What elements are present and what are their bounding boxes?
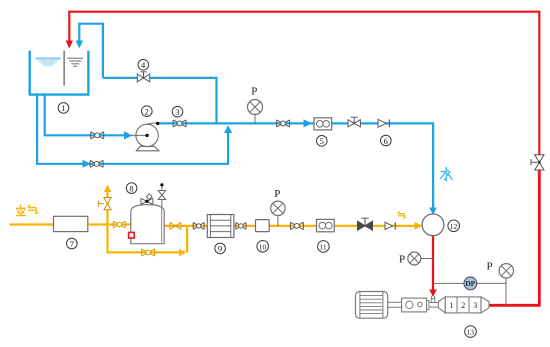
vessel TK8 (dome-top tank) — [131, 205, 164, 244]
label air (Chinese) at orange inlet — [16, 205, 38, 215]
wire blue bypass line through valve V4 — [103, 78, 217, 124]
pump P2 body — [136, 124, 158, 146]
regulator R10 — [256, 220, 270, 232]
blue arrow on suction line before pump — [124, 131, 133, 139]
orange arrow vent up — [104, 185, 111, 192]
pressure gauge P3 on mixer outlet — [399, 252, 433, 266]
wire red return line (right riser and top run back to tank) — [69, 12, 539, 170]
wire blue pump suction from tank bottom — [45, 95, 129, 136]
valve V-main on main line after gauge P1 — [277, 120, 290, 127]
label 6 (check valve) — [381, 135, 392, 146]
filter F7 — [54, 216, 88, 231]
wire red from static mixer down to separator inlet — [432, 236, 434, 292]
flowmeter FM5 — [314, 118, 332, 130]
blue arrow on main line before flowmeter 5 — [304, 119, 312, 127]
check valve CV6 — [378, 119, 389, 127]
svg-text:7: 7 — [70, 239, 74, 249]
svg-text:P: P — [399, 254, 405, 266]
wire orange from filter to vessel 8 — [88, 223, 131, 225]
flowmeter FM11 — [317, 219, 335, 231]
wire orange air inlet main line — [10, 223, 54, 225]
svg-text:12: 12 — [450, 222, 458, 231]
motor M13 — [356, 292, 388, 319]
valve V-8out1 after vessel 8 — [170, 222, 181, 229]
svg-text:P: P — [487, 261, 493, 273]
wire blue recirculation feed into tank (top) — [79, 24, 103, 78]
separator inlet pipe and injection fitting — [429, 296, 439, 307]
water level symbol right compartment — [67, 58, 83, 66]
relief valve on vessel 8 top right — [158, 183, 166, 206]
svg-text:11: 11 — [319, 242, 326, 251]
label 3 (valve) — [172, 106, 183, 117]
label 7 (filter) — [67, 238, 78, 249]
orange arrow into static mixer 12 — [415, 222, 423, 230]
blue arrow on lower bypass — [83, 160, 91, 168]
valve V-red on return riser — [531, 155, 544, 170]
pressure gauge P1 on main blue line — [248, 86, 263, 124]
svg-text:13: 13 — [467, 328, 475, 337]
svg-text:8: 8 — [129, 183, 133, 193]
svg-text:DP: DP — [465, 279, 475, 288]
red arrow into tank — [66, 41, 73, 49]
svg-text:10: 10 — [259, 242, 267, 251]
valve V-8in on vessel 8 inlet — [113, 221, 125, 228]
agitator drive on vessel 8 top — [141, 194, 153, 205]
svg-text:6: 6 — [384, 136, 388, 146]
heat exchanger E9 — [207, 215, 234, 238]
valve V-9out after exchanger 9 — [236, 222, 246, 229]
valve V-gas throttle with T-handle — [358, 218, 373, 230]
red arrow into separator inlet fitting — [429, 290, 437, 297]
label 11 (flowmeter) — [318, 241, 330, 253]
svg-text:P: P — [251, 86, 257, 98]
label 2 (pump) — [142, 106, 153, 117]
motor shaft — [388, 302, 402, 307]
pressure gauge P4 on separator outlet — [487, 261, 514, 306]
tank divider plate — [63, 51, 65, 86]
svg-text:3: 3 — [473, 301, 477, 310]
dp transmitter DP — [433, 277, 506, 290]
bearing housing of unit 13 — [402, 298, 429, 312]
label gas (Chinese) small near mixer inlet — [398, 212, 406, 219]
wire orange vessel 8 outlet line to mixer 12 — [164, 225, 415, 227]
valve V-vent on vent riser (with side stem) — [98, 198, 111, 210]
label 12 (mixer) — [448, 220, 460, 232]
water level symbol left compartment — [35, 57, 60, 66]
label 10 (regulator) — [257, 241, 269, 253]
valve V-bypass on lower bypass line — [90, 160, 103, 167]
tank T1 (open top water tank) — [30, 51, 89, 95]
wire blue main discharge line to static mixer — [158, 123, 433, 230]
valve V-11in before flowmeter 11 — [290, 222, 303, 229]
wire orange vent riser — [106, 190, 108, 225]
blue arrow into static mixer 12 — [429, 208, 437, 215]
separator S13 vessel with sections 1 2 3 — [438, 297, 489, 313]
blue arrow up into main line from bypass riser — [224, 125, 232, 133]
label water (Chinese) on blue riser — [440, 168, 452, 181]
svg-text:P: P — [274, 188, 280, 200]
svg-text:9: 9 — [218, 244, 222, 254]
label 9 (exchanger) — [215, 243, 226, 254]
valve V-8out2 before exchanger 9 — [193, 222, 204, 229]
valve V-suction on pump suction line — [91, 132, 104, 139]
blue arrow into tank — [76, 41, 83, 49]
pump P2 outlet line and junction dot — [146, 122, 159, 125]
svg-text:5: 5 — [320, 136, 324, 146]
label 4 (valve) — [138, 60, 149, 71]
valve V-8byp on bypass line — [142, 249, 155, 256]
valve V-throttle with T-handle after flowmeter 5 — [348, 117, 360, 127]
pump P2 base — [136, 146, 159, 150]
wire blue lower bypass from tank bottom — [37, 95, 228, 164]
svg-text:2: 2 — [145, 107, 149, 117]
red sight glass on vessel 8 — [129, 232, 135, 238]
static mixer M12 — [422, 214, 444, 236]
svg-text:3: 3 — [175, 107, 179, 117]
label 8 (vessel) — [126, 183, 137, 194]
check valve CV-gas before mixer 12 — [385, 222, 395, 229]
pressure gauge P2 on orange line — [271, 188, 285, 226]
valve V4 on recirculation bypass (with stem) — [137, 72, 149, 82]
svg-text:1: 1 — [61, 103, 65, 113]
orange arrow on bypass before riser — [179, 249, 187, 257]
label 1 (tank) — [58, 103, 69, 114]
svg-text:1: 1 — [449, 301, 453, 310]
wire red return line (thick bottom-right segment from separator outlet) — [489, 168, 539, 305]
label 5 (flowmeter) — [317, 136, 328, 147]
svg-text:2: 2 — [461, 301, 465, 310]
pump P2 inlet line and hub — [131, 134, 149, 137]
label 13 (separator) — [465, 326, 477, 338]
wire orange lower bypass around vessel 8 — [108, 225, 184, 253]
valve V3 on pump discharge — [173, 120, 186, 127]
wire orange bypass riser up to outlet line — [186, 226, 188, 253]
